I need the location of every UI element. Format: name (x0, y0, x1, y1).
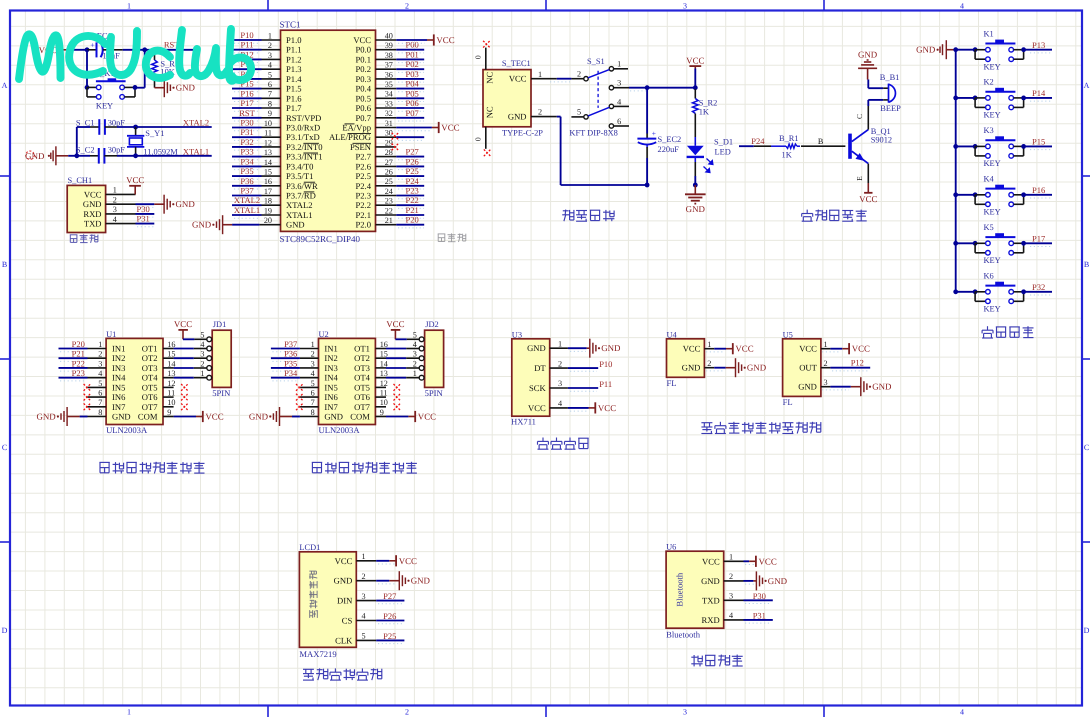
U1 pin 15 (OT2) (142, 350, 176, 364)
U1 pin 4 (IN4) (88, 369, 127, 383)
svg-text:34: 34 (385, 90, 393, 99)
svg-text:P34: P34 (284, 368, 298, 378)
MCU pin 2 (P1.1) with lead (262, 41, 302, 55)
module U6 Bluetooth body (666, 542, 724, 639)
U3 pin 4 (VCC) (528, 399, 568, 413)
svg-text:LCD1: LCD1 (299, 543, 320, 552)
svg-text:P2.0: P2.0 (355, 220, 371, 230)
svg-text:P36: P36 (240, 176, 253, 186)
svg-text:3: 3 (361, 592, 365, 601)
svg-text:P37: P37 (284, 339, 297, 349)
MCU pin 3 (P1.2) with lead (262, 51, 302, 65)
LCD1 pin 3 (DIN) (337, 592, 376, 606)
svg-text:VCC: VCC (735, 344, 753, 354)
svg-text:220uF: 220uF (658, 145, 680, 154)
svg-text:XTAL2: XTAL2 (286, 200, 313, 210)
svg-text:P20: P20 (406, 215, 419, 225)
svg-text:ULN2003A: ULN2003A (319, 425, 361, 435)
svg-text:TXD: TXD (84, 219, 102, 229)
svg-text:P2.4: P2.4 (355, 181, 371, 191)
svg-text:OUT: OUT (799, 363, 817, 373)
svg-text:P07: P07 (406, 108, 419, 118)
U2 pin 8 (GND) (300, 408, 343, 422)
wire switch pin3 to VCC rail (629, 88, 695, 91)
svg-text:2: 2 (268, 41, 272, 50)
svg-text:RXD: RXD (702, 615, 720, 625)
svg-text:DIN: DIN (337, 596, 353, 606)
bus junction K1 (953, 47, 958, 52)
U3 pin 2 (DT) (534, 359, 568, 373)
svg-text:GND: GND (112, 412, 131, 422)
svg-text:P2.5: P2.5 (355, 171, 371, 181)
svg-text:2: 2 (558, 359, 562, 368)
svg-text:LED: LED (715, 147, 731, 156)
wire + net label P16 (1024, 185, 1052, 198)
svg-text:P24: P24 (751, 136, 765, 146)
svg-text:P03: P03 (406, 69, 419, 79)
svg-text:P3.4/T0: P3.4/T0 (286, 161, 313, 171)
svg-text:36: 36 (385, 70, 393, 79)
S_CH1 pin 1 (VCC) (84, 186, 136, 200)
power port VCC at JD2 pin 5 (386, 319, 419, 339)
svg-text:P05: P05 (406, 88, 419, 98)
wire + net label P26 at LCD1 pin 4 (376, 611, 404, 624)
svg-text:P23: P23 (72, 368, 85, 378)
svg-text:3: 3 (98, 359, 102, 368)
svg-text:VCC: VCC (353, 35, 371, 45)
U2 pin 2 (IN2) (300, 350, 338, 364)
svg-text:P34: P34 (240, 156, 254, 166)
svg-text:GND: GND (249, 412, 269, 422)
svg-text:3: 3 (311, 359, 315, 368)
push button K5 KEY (973, 223, 1026, 265)
svg-text:S_CH1: S_CH1 (68, 176, 93, 185)
svg-text:XTAL1: XTAL1 (286, 210, 313, 220)
svg-text:P11: P11 (599, 379, 612, 389)
wire node X1 up to C1 rail (77, 127, 90, 156)
MCU pin 21 (P2.0) with lead (355, 216, 396, 230)
svg-text:VCC: VCC (335, 556, 353, 566)
U2 pin 13 (OT4) (354, 369, 388, 383)
svg-text:1: 1 (413, 369, 417, 378)
svg-text:P3.1/TxD: P3.1/TxD (286, 132, 320, 142)
module U4 FL body (667, 330, 705, 388)
wire + net label P33 (MCU pin 13) (232, 147, 262, 160)
svg-text:1K: 1K (782, 151, 792, 160)
no-ERC marker U2 pin 6 (296, 394, 303, 401)
wire TEC1 pin1 to switch pin2 (550, 79, 571, 82)
wire + net label P37 (MCU pin 17) (232, 186, 262, 199)
LCD1 pin 4 (CS) (342, 612, 376, 626)
svg-text:4: 4 (113, 215, 117, 224)
bus junction K2 (953, 96, 958, 101)
wire + net label P25 (MCU pin 26) (396, 166, 424, 179)
node A junction (85, 47, 90, 52)
JD1 pin 2 (200, 359, 211, 370)
U6 pin 4 (RXD) (702, 611, 744, 625)
svg-text:XTAL1: XTAL1 (183, 146, 209, 156)
svg-text:K2: K2 (984, 78, 994, 87)
svg-text:S9012: S9012 (871, 136, 892, 145)
svg-text:5: 5 (577, 108, 581, 117)
svg-text:KEY: KEY (984, 305, 1001, 314)
svg-text:+: + (652, 129, 656, 138)
no-ERC marker U1 pin 10 (181, 403, 188, 410)
push button K2 KEY (973, 78, 1026, 120)
svg-text:25: 25 (385, 177, 393, 186)
svg-text:GND: GND (25, 151, 45, 161)
wire node RST down to key (135, 50, 145, 88)
svg-text:P0.0: P0.0 (355, 45, 371, 55)
power port GND (buzzer) (858, 50, 878, 80)
JD1 pin 1 (200, 369, 211, 380)
svg-text:E: E (855, 176, 864, 181)
svg-text:0: 0 (474, 55, 483, 59)
svg-text:P23: P23 (406, 186, 419, 196)
svg-text:IN2: IN2 (112, 353, 125, 363)
svg-text:S_R2: S_R2 (699, 98, 718, 107)
svg-text:GND: GND (747, 363, 767, 373)
MCU pin 12 (P3.2/INT0) with lead (262, 138, 323, 152)
wire + net label P06 (MCU pin 33) (396, 98, 424, 111)
no-ERC marker U2 pin 7 (296, 403, 303, 410)
S_CH1 pin 3 (RXD) (83, 205, 135, 219)
svg-text:P14: P14 (1032, 88, 1046, 98)
MCU U-STC1 body (280, 20, 376, 244)
svg-text:2: 2 (577, 70, 581, 79)
wire + net label P13 (MCU pin 4) (232, 59, 262, 72)
svg-text:P13: P13 (1032, 40, 1045, 50)
svg-text:P2.6: P2.6 (355, 161, 371, 171)
svg-text:P0.1: P0.1 (355, 54, 371, 64)
U2 pin 16 (OT1) (354, 340, 388, 354)
LED S_D1 (687, 137, 733, 173)
MCU pin 4 (P1.3) with lead (262, 61, 302, 75)
svg-text:4: 4 (200, 340, 204, 349)
wire + net label P21 (U1 pin 2) (59, 349, 88, 362)
vertical label 点阵显示屏 inside LCD1 (309, 571, 317, 618)
node X3 junction (133, 153, 138, 158)
svg-text:15: 15 (167, 350, 175, 359)
svg-text:5: 5 (311, 379, 315, 388)
svg-text:OT6: OT6 (142, 392, 158, 402)
svg-text:IN4: IN4 (324, 373, 338, 383)
svg-text:P04: P04 (406, 79, 420, 89)
svg-text:1K: 1K (699, 107, 709, 116)
svg-text:4: 4 (960, 2, 964, 11)
capacitor S_C1 30pF (76, 118, 125, 135)
svg-text:P35: P35 (240, 166, 253, 176)
svg-text:7: 7 (268, 90, 272, 99)
svg-text:P37: P37 (240, 186, 253, 196)
wire + net label P24 (MCU pin 25) (396, 176, 424, 189)
svg-text:SCK: SCK (529, 383, 547, 393)
svg-text:P2.3: P2.3 (355, 191, 371, 201)
node R1 junction (R2 top) (693, 85, 698, 90)
svg-text:9: 9 (268, 109, 272, 118)
U2 pin 11 (OT6) (354, 389, 387, 403)
wire + net label P21 (MCU pin 22) (396, 205, 424, 218)
svg-text:1: 1 (113, 186, 117, 195)
node X1 junction (74, 153, 79, 158)
svg-text:OT7: OT7 (354, 402, 370, 412)
no-ERC marker U2 pin 11 (394, 394, 401, 401)
svg-text:1: 1 (824, 340, 828, 349)
svg-text:GND: GND (176, 83, 196, 93)
U5 pin 3 (GND) (798, 378, 830, 392)
module LCD1 MAX7219 body (299, 543, 356, 659)
MCU pin 29 (PSEN) with lead (350, 138, 396, 152)
svg-text:FL: FL (783, 397, 793, 407)
svg-text:XTAL2: XTAL2 (234, 195, 260, 205)
wire U2 pin 13 to JD2 pin 1 (386, 377, 419, 379)
wire bus to K4 (956, 194, 975, 196)
svg-text:IN4: IN4 (112, 373, 126, 383)
wire + power port GND at U6 pin 2 (744, 571, 788, 590)
svg-text:20: 20 (264, 216, 272, 225)
wire + net label P22 (U1 pin 3) (59, 358, 88, 371)
wire bus to K3 (956, 145, 975, 147)
svg-text:XTAL2: XTAL2 (183, 117, 209, 127)
svg-text:39: 39 (385, 41, 393, 50)
svg-text:7: 7 (98, 398, 102, 407)
MCU pin 20 (GND) with lead (259, 216, 304, 230)
svg-text:6: 6 (311, 389, 315, 398)
svg-text:15: 15 (380, 350, 388, 359)
wire + net label P20 (MCU pin 21) (396, 215, 424, 228)
svg-text:2: 2 (98, 350, 102, 359)
svg-text:BEEP: BEEP (880, 104, 901, 113)
wire + net label P16 (MCU pin 7) (232, 88, 262, 101)
wire VCC to node A (70, 49, 87, 51)
power port GND (U2 pin 8) (249, 407, 300, 426)
buzzer B_B1 BEEP (868, 73, 901, 113)
S_TEC1 pin 1 VCC (509, 70, 557, 84)
svg-text:16: 16 (167, 340, 175, 349)
svg-text:2: 2 (707, 359, 711, 368)
svg-text:RXD: RXD (83, 209, 101, 219)
wire bus to K2 (956, 97, 975, 99)
U1 pin 7 (IN7) (88, 398, 127, 412)
wire + net label P12 at U5 pin 2 (830, 357, 870, 371)
no-ERC marker U1 pin 5 (84, 384, 91, 391)
svg-text:JD1: JD1 (213, 320, 227, 329)
U1 pin 1 (IN1) (88, 340, 126, 354)
MCU pin 8 (P1.7) with lead (262, 99, 303, 113)
S_TEC1 bottom stub pin 0 (474, 127, 486, 149)
U1 pin 2 (IN2) (88, 350, 126, 364)
svg-text:22: 22 (385, 206, 393, 215)
no-ERC marker U1 pin 12 (181, 384, 188, 391)
svg-text:P2.1: P2.1 (355, 210, 371, 220)
svg-text:2: 2 (405, 2, 409, 11)
svg-text:D: D (2, 626, 8, 635)
svg-text:6: 6 (98, 389, 102, 398)
svg-text:C: C (855, 114, 864, 119)
power port GND (power circuit) (685, 185, 706, 214)
MCU pin 18 (XTAL2) with lead (262, 197, 313, 211)
svg-text:IN1: IN1 (112, 344, 125, 354)
svg-text:31: 31 (385, 119, 393, 128)
svg-text:13: 13 (264, 148, 272, 157)
svg-text:21: 21 (385, 216, 393, 225)
svg-text:37: 37 (385, 61, 393, 70)
svg-text:KEY: KEY (984, 256, 1001, 265)
U2 pin 12 (OT5) (354, 379, 388, 393)
U2 pin 7 (IN7) (300, 398, 339, 412)
svg-text:VCC: VCC (859, 194, 877, 204)
svg-text:P1.6: P1.6 (286, 93, 302, 103)
svg-text:P1.0: P1.0 (286, 35, 302, 45)
wire + net label P04 (MCU pin 35) (396, 79, 424, 92)
svg-text:OT2: OT2 (354, 353, 370, 363)
wire + net label P07 (MCU pin 32) (396, 108, 424, 121)
svg-text:P17: P17 (240, 98, 253, 108)
U1 pin 14 (OT3) (142, 359, 176, 373)
power port VCC at MCU pin 31 (EA) (396, 122, 459, 133)
wire + net label P22 (MCU pin 23) (396, 195, 424, 208)
wire + net label P11 at U3 pin 3 (568, 379, 612, 391)
push button K1 KEY (973, 29, 1026, 71)
wire + net label RST (MCU pin 9) (232, 108, 262, 121)
svg-text:10: 10 (167, 398, 175, 407)
MCU pin 33 (P0.6) with lead (355, 99, 396, 113)
svg-text:FL: FL (667, 378, 677, 388)
svg-text:IN7: IN7 (112, 402, 126, 412)
svg-text:C: C (2, 443, 7, 452)
U4 pin 1 (VCC) (683, 340, 714, 354)
svg-text:8: 8 (268, 99, 272, 108)
power port GND (below S_R1) (155, 78, 196, 97)
wire + power port GND at U3 pin 1 (568, 339, 621, 358)
svg-text:Bluetooth: Bluetooth (666, 629, 701, 639)
S_TEC1 top stub pin 0 (474, 48, 486, 70)
wire + net label P14 (MCU pin 5) (232, 69, 262, 82)
svg-text:14: 14 (264, 158, 272, 167)
MCU pin 10 (P3.0/RxD) with lead (262, 119, 321, 133)
MCU pin 1 (P1.0) with lead (262, 31, 302, 45)
wire + net label P26 (MCU pin 27) (396, 156, 424, 169)
MCU pin 9 (RST/VPD) with lead (262, 109, 322, 123)
S_CH1 pin 4 (TXD) (84, 215, 136, 229)
wire + net label P27 at LCD1 pin 3 (376, 591, 404, 604)
no-ERC marker U2 pin 5 (296, 384, 303, 391)
resistor S_R1 10K (152, 47, 179, 87)
wire + net label P31 at U6 pin 4 (744, 611, 773, 624)
power port GND (key bus) (916, 40, 956, 59)
svg-text:OT1: OT1 (354, 344, 370, 354)
MCU pin 17 (P3.7/RD) with lead (262, 187, 316, 201)
MCU pin 16 (P3.6/WR) with lead (262, 177, 319, 191)
svg-text:3: 3 (683, 2, 687, 11)
no-ERC marker U1 pin 7 (84, 403, 91, 410)
svg-text:12: 12 (380, 379, 388, 388)
crystal S_Y1 11.0592M (127, 127, 178, 156)
svg-text:P06: P06 (406, 98, 419, 108)
svg-text:P2.7: P2.7 (355, 152, 371, 162)
U4 pin 2 (GND) (682, 359, 714, 373)
svg-text:COM: COM (138, 412, 158, 422)
svg-text:B: B (818, 137, 824, 146)
svg-text:VCC: VCC (528, 403, 546, 413)
wire bus to K5 (956, 242, 975, 244)
U3 pin 1 (GND) (527, 339, 568, 353)
U6 pin 3 (TXD) (702, 592, 743, 606)
svg-text:P1.5: P1.5 (286, 84, 302, 94)
svg-text:C: C (1084, 443, 1089, 452)
svg-text:VCC: VCC (84, 189, 102, 199)
transistor B_Q1 S9012 PNP (848, 127, 892, 164)
svg-text:P15: P15 (1032, 137, 1045, 147)
svg-text:IN1: IN1 (324, 344, 337, 354)
node X2 junction (133, 125, 138, 130)
svg-text:P22: P22 (72, 358, 85, 368)
svg-text:6: 6 (617, 117, 621, 126)
wire + net label P30 at U6 pin 3 (744, 591, 773, 604)
svg-text:P10: P10 (599, 359, 612, 369)
svg-text:GND: GND (36, 412, 56, 422)
wire + net label P32 (1024, 282, 1052, 295)
svg-text:K3: K3 (984, 126, 994, 135)
node B2 junction (693, 183, 698, 188)
MCU pin 28 (P2.7) with lead (355, 148, 396, 162)
svg-text:2: 2 (200, 359, 204, 368)
no-ERC marker top stub (483, 41, 490, 48)
S_TEC1 pin 2 GND (508, 108, 557, 122)
svg-text:2: 2 (413, 359, 417, 368)
svg-text:IN6: IN6 (112, 392, 126, 402)
svg-text:P30: P30 (240, 118, 253, 128)
svg-text:S_D1: S_D1 (714, 137, 733, 146)
bus junction K3 (953, 144, 958, 149)
svg-text:3: 3 (617, 79, 621, 88)
svg-text:13: 13 (380, 369, 388, 378)
svg-text:VCC: VCC (686, 56, 704, 66)
svg-text:3: 3 (683, 708, 687, 717)
svg-text:5: 5 (361, 632, 365, 641)
svg-text:P21: P21 (406, 205, 419, 215)
svg-text:1: 1 (707, 340, 711, 349)
wire U1 pin 13 to JD1 pin 1 (174, 377, 207, 379)
svg-text:GND: GND (527, 343, 546, 353)
svg-text:1: 1 (729, 553, 733, 562)
svg-text:1: 1 (617, 60, 621, 69)
LCD1 pin 5 (CLK) (335, 632, 376, 646)
svg-text:3: 3 (729, 592, 733, 601)
svg-text:VCC: VCC (399, 556, 417, 566)
push button K6 KEY (973, 271, 1026, 313)
svg-text:27: 27 (385, 158, 393, 167)
connector JD1 5PIN body (212, 320, 231, 398)
wire + net label P30 at S_CH1 pin 3 (136, 204, 155, 217)
svg-text:VCC: VCC (759, 556, 777, 566)
svg-text:STC89C52RC_DIP40: STC89C52RC_DIP40 (280, 234, 361, 244)
svg-text:Bluetooth: Bluetooth (674, 572, 684, 607)
svg-text:ULN2003A: ULN2003A (106, 425, 148, 435)
U2 pin 4 (IN4) (300, 369, 339, 383)
no-ERC marker MCU pin 30 (392, 133, 399, 140)
wire + net label P13 (1024, 40, 1052, 53)
wire + net label P02 (MCU pin 37) (396, 59, 424, 72)
wire + net label XTAL1 (MCU pin 19) (232, 205, 262, 218)
svg-text:3: 3 (558, 379, 562, 388)
MCU pin 15 (P3.5/T1) with lead (262, 168, 314, 182)
svg-text:8: 8 (98, 408, 102, 417)
wire + net label P35 (MCU pin 15) (232, 166, 262, 179)
key bus vertical wire (955, 50, 957, 292)
svg-text:JD2: JD2 (425, 320, 439, 329)
U1 pin 5 (IN5) (88, 379, 126, 393)
